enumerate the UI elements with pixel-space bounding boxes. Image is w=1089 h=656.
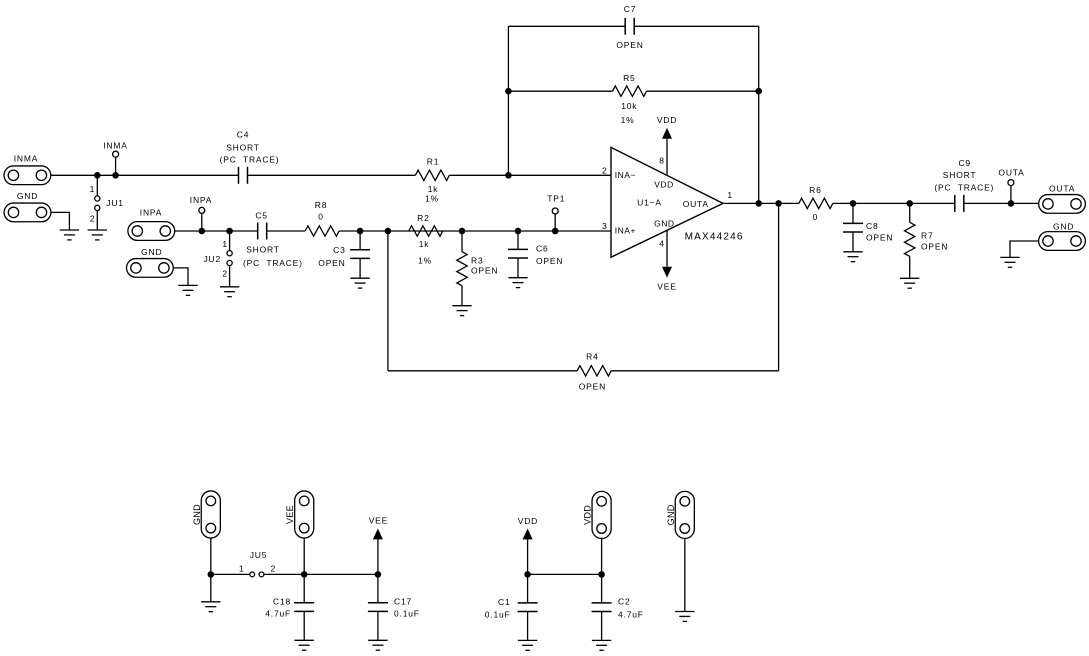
connector INMA [4, 154, 51, 185]
svg-text:1: 1 [727, 190, 733, 200]
capacitor C7 [616, 4, 643, 50]
power VEE arrow [369, 516, 388, 575]
svg-text:INMA: INMA [103, 140, 127, 150]
svg-text:OPEN: OPEN [579, 382, 606, 392]
svg-text:1%: 1% [621, 115, 635, 125]
svg-text:OPEN: OPEN [318, 258, 345, 268]
svg-text:GND: GND [1053, 222, 1074, 232]
ground R7 [900, 278, 919, 288]
jumper JU1 [90, 175, 124, 230]
power VEE at op-amp pin 4 [657, 230, 676, 291]
resistor R2 [409, 213, 443, 265]
connector VEE [285, 491, 314, 538]
svg-text:OPEN: OPEN [536, 256, 563, 266]
svg-text:0: 0 [813, 212, 819, 222]
wire op-amp output [723, 202, 799, 204]
svg-text:C17: C17 [394, 596, 412, 606]
svg-text:1k: 1k [428, 184, 439, 194]
svg-text:1: 1 [222, 239, 228, 249]
svg-text:VDD: VDD [518, 516, 538, 526]
svg-text:VDD: VDD [583, 505, 593, 525]
wire C4 to R1 [248, 174, 416, 176]
svg-text:R8: R8 [315, 200, 327, 210]
ground C6 [508, 278, 527, 288]
ground power right [675, 612, 694, 622]
svg-text:C6: C6 [536, 244, 548, 254]
svg-text:1%: 1% [425, 194, 439, 204]
wire VEE pad to node [303, 538, 305, 574]
wire feedback right vertical [758, 26, 760, 203]
svg-text:VDD: VDD [657, 115, 677, 125]
wire R8 to op-amp pin 3 [339, 230, 611, 232]
node TP1 [552, 228, 559, 235]
svg-text:0.1uF: 0.1uF [394, 609, 420, 619]
svg-text:TP1: TP1 [547, 193, 565, 203]
svg-text:R4: R4 [586, 352, 598, 362]
svg-text:C18: C18 [273, 596, 291, 606]
wire GND pad to node [210, 538, 212, 574]
capacitor C1 [485, 574, 538, 640]
svg-text:C1: C1 [498, 597, 510, 607]
ground power GND [201, 602, 220, 612]
svg-text:3: 3 [602, 221, 608, 231]
ground JU1 [88, 230, 107, 240]
svg-text:OUTA: OUTA [1049, 184, 1075, 194]
svg-text:JU5: JU5 [250, 550, 268, 560]
ground R3 [452, 306, 471, 316]
svg-text:JU1: JU1 [106, 198, 124, 208]
svg-text:JU2: JU2 [203, 254, 221, 264]
node OUTA TP [1008, 200, 1015, 207]
svg-text:0: 0 [318, 212, 324, 222]
svg-text:INA−: INA− [615, 170, 636, 180]
svg-text:4.7uF: 4.7uF [265, 609, 291, 619]
svg-text:C8: C8 [866, 221, 878, 231]
resistor R7 [905, 203, 949, 278]
svg-text:(PC TRACE): (PC TRACE) [243, 258, 303, 268]
svg-text:2: 2 [602, 165, 608, 175]
connector GND power right [666, 491, 695, 538]
ground GND INMA [60, 230, 79, 240]
connector GND power left [192, 491, 221, 538]
svg-text:2: 2 [222, 269, 228, 279]
jumper JU2 [203, 231, 232, 287]
svg-text:R3: R3 [471, 256, 483, 266]
ground C3 [350, 278, 369, 288]
wire C7 top left [508, 25, 625, 27]
capacitor C18 [265, 574, 314, 640]
resistor R4 [577, 352, 611, 392]
svg-text:OPEN: OPEN [471, 266, 498, 276]
svg-text:OPEN: OPEN [616, 40, 643, 50]
svg-text:2: 2 [271, 564, 277, 574]
wire R4 right vertical [778, 203, 780, 370]
svg-text:GND: GND [141, 247, 162, 257]
svg-text:GND: GND [666, 504, 676, 525]
svg-text:SHORT: SHORT [943, 170, 977, 180]
svg-text:R1: R1 [427, 157, 439, 167]
resistor R3 [457, 231, 498, 306]
node VDD C2 [598, 571, 605, 578]
ground GND OUTA [1000, 257, 1019, 267]
test point INPA [190, 195, 212, 231]
op-amp U1-A MAX44246 [602, 147, 744, 257]
svg-text:C5: C5 [255, 211, 267, 221]
capacitor C9 [934, 158, 994, 212]
svg-text:VDD: VDD [654, 179, 673, 189]
svg-text:OPEN: OPEN [921, 241, 948, 251]
node VDD C1 [524, 571, 531, 578]
node C6 [515, 228, 522, 235]
node INPA TP junction [199, 228, 233, 235]
ground C8 [843, 252, 862, 262]
svg-text:GND: GND [17, 191, 38, 201]
svg-text:SHORT: SHORT [246, 245, 280, 255]
power VDD arrow [518, 516, 538, 574]
wire feedback left vertical [507, 26, 509, 175]
svg-text:C9: C9 [958, 158, 970, 168]
wire R6 to C9 [833, 202, 955, 204]
wire R4 left vertical [387, 231, 389, 371]
ground C2 [592, 640, 611, 650]
wire C9 to OUTA [964, 202, 1039, 204]
svg-text:VEE: VEE [657, 281, 676, 291]
svg-text:C3: C3 [333, 245, 345, 255]
svg-text:GND: GND [192, 504, 202, 525]
wire R4 bottom left [388, 370, 577, 372]
test point OUTA [998, 167, 1024, 203]
svg-text:0.1uF: 0.1uF [485, 610, 511, 620]
svg-text:4.7uF: 4.7uF [618, 609, 644, 619]
svg-text:8: 8 [659, 156, 665, 166]
node VEE C18 [301, 571, 308, 578]
capacitor C17 [368, 574, 420, 640]
capacitor C5 [243, 211, 303, 268]
capacitor C6 [508, 231, 563, 278]
node JU1/INMA junction [94, 172, 119, 179]
wire GND INPA to ground [173, 268, 188, 286]
resistor R8 [305, 200, 339, 236]
node feedback left [505, 172, 512, 179]
resistor R5 [613, 73, 647, 125]
node output feedback [755, 200, 781, 207]
node GND jumper [208, 571, 215, 578]
jumper JU5 [211, 550, 304, 577]
wire R4 bottom right [611, 370, 779, 372]
node R3 [459, 228, 466, 235]
svg-text:C4: C4 [237, 130, 249, 140]
wire GND INMA to ground [51, 212, 70, 230]
wire GND pad to ground [684, 539, 686, 612]
wire R5 row right [647, 90, 759, 92]
wire node to ground [210, 574, 212, 601]
svg-text:R5: R5 [623, 73, 635, 83]
svg-text:SHORT: SHORT [226, 143, 260, 153]
svg-text:INPA: INPA [140, 207, 162, 217]
wire C5 to R8 [267, 230, 305, 232]
ground GND INPA [178, 285, 197, 295]
wire R5 row left [508, 90, 612, 92]
svg-text:1%: 1% [418, 256, 432, 266]
svg-text:4: 4 [659, 239, 665, 249]
wire VDD pad to node [601, 539, 603, 575]
power VDD at op-amp pin 8 [657, 115, 677, 175]
svg-text:(PC TRACE): (PC TRACE) [220, 154, 280, 164]
svg-text:OUTA: OUTA [998, 167, 1024, 177]
svg-text:VEE: VEE [285, 505, 295, 524]
node R5 right [755, 88, 762, 95]
connector GND INMA [4, 191, 51, 222]
ground C1 [518, 640, 537, 650]
resistor R1 [415, 157, 449, 204]
svg-text:10k: 10k [621, 101, 637, 111]
node R4 branch [385, 228, 392, 235]
svg-text:U1−A: U1−A [637, 198, 662, 208]
ground C17 [368, 640, 387, 650]
svg-text:INMA: INMA [14, 154, 38, 164]
connector VDD [583, 491, 612, 538]
capacitor C2 [592, 574, 644, 640]
wire R1 to op-amp pin 2 [449, 174, 611, 176]
wire C7 top right [634, 25, 759, 27]
wire GND OUTA to ground [1010, 241, 1039, 257]
svg-text:INPA: INPA [190, 195, 212, 205]
svg-text:R2: R2 [417, 213, 429, 223]
svg-text:(PC TRACE): (PC TRACE) [934, 183, 994, 193]
node R7 [906, 200, 913, 207]
test point INMA [103, 140, 127, 175]
capacitor C3 [318, 231, 370, 278]
svg-text:VEE: VEE [369, 516, 388, 526]
ground C18 [295, 640, 314, 650]
svg-text:C2: C2 [618, 597, 630, 607]
svg-text:GND: GND [654, 219, 674, 229]
connector GND INPA [127, 247, 174, 277]
node R5 left [505, 88, 512, 95]
svg-text:R6: R6 [809, 185, 821, 195]
node C8 [850, 200, 857, 207]
node VEE arrow C17 [375, 571, 382, 578]
capacitor C4 [220, 130, 280, 184]
wire INMA to C4 [51, 174, 239, 176]
wire INPA to C5 [175, 230, 258, 232]
ground JU2 [220, 287, 239, 297]
svg-text:MAX44246: MAX44246 [685, 232, 744, 243]
svg-text:1k: 1k [419, 239, 430, 249]
svg-text:1: 1 [239, 564, 245, 574]
svg-text:R7: R7 [921, 230, 933, 240]
connector GND OUTA [1039, 222, 1086, 251]
svg-text:1: 1 [90, 184, 96, 194]
connector INPA [128, 207, 175, 240]
svg-text:OPEN: OPEN [866, 232, 893, 242]
resistor R6 [799, 185, 833, 222]
capacitor C8 [843, 203, 893, 251]
test point TP1 [547, 193, 565, 231]
svg-text:INA+: INA+ [615, 226, 636, 236]
wire VEE node to C17 [304, 573, 378, 575]
svg-text:C7: C7 [624, 4, 636, 14]
svg-text:2: 2 [90, 213, 96, 223]
node C3 [357, 228, 364, 235]
connector OUTA [1039, 184, 1086, 214]
svg-text:OUTA: OUTA [683, 199, 709, 209]
wire VDD node to pad node [528, 573, 602, 575]
